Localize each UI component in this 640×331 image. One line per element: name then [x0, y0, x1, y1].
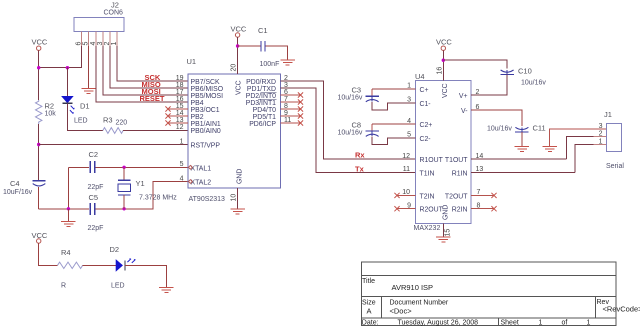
U1 TXD underline — [261, 91, 277, 93]
svg-text:XTAL2: XTAL2 — [191, 180, 212, 187]
svg-text:18: 18 — [176, 82, 184, 89]
svg-text:2: 2 — [599, 131, 603, 138]
U1 no-connect stub pin 6r — [281, 94, 301, 96]
svg-text:U4: U4 — [415, 72, 425, 81]
svg-text:PB4: PB4 — [191, 100, 204, 107]
X mark pin 7r — [298, 99, 303, 104]
wire C3 bottom to U4 C1- — [372, 102, 415, 110]
wire J1 pin3 to ground — [550, 129, 607, 147]
svg-text:C2: C2 — [89, 150, 99, 159]
U1 no-connect stub pin 9r — [281, 115, 301, 117]
svg-text:22pF: 22pF — [88, 184, 104, 191]
svg-text:VCC: VCC — [442, 83, 449, 98]
U1 no-connect stub pin 13 — [168, 122, 188, 124]
X mark pin 8r — [298, 106, 303, 111]
crystal Y1 — [118, 167, 177, 209]
svg-text:PD6/ICP: PD6/ICP — [249, 121, 276, 128]
svg-text:10u/16v: 10u/16v — [521, 80, 546, 87]
node junction RST pullup — [37, 143, 40, 146]
svg-text:AVR910 ISP: AVR910 ISP — [392, 283, 434, 292]
capacitor C1 — [258, 26, 279, 68]
U4 pin numbers right — [476, 89, 484, 210]
U1 INT0 underline — [258, 98, 277, 100]
svg-text:RESET: RESET — [140, 94, 165, 103]
svg-text:C2-: C2- — [420, 136, 431, 143]
ground under U4 — [436, 237, 451, 242]
U4 pin names left — [420, 87, 444, 214]
wire J2 pin 3 MOSI to U1 pin 17 — [103, 46, 188, 95]
capacitor C3 — [338, 86, 380, 102]
svg-text:PD0/RXD: PD0/RXD — [246, 79, 276, 86]
svg-text:Rx: Rx — [355, 151, 365, 160]
J2 pin 4 stub — [95, 32, 97, 47]
svg-text:PB7/SCK: PB7/SCK — [191, 79, 221, 86]
svg-text:20: 20 — [231, 64, 238, 72]
wire D2 cathode to ground — [125, 265, 166, 287]
wire J2 pin 4 RESET to U1 pin 16 — [96, 46, 188, 102]
svg-text:5: 5 — [83, 42, 90, 46]
svg-text:T1OUT: T1OUT — [445, 157, 468, 164]
svg-text:C5: C5 — [89, 193, 99, 202]
ground at C1 — [280, 60, 295, 65]
U4 no-connect stub pin 8 — [471, 208, 494, 210]
wire J2 pin 5 to ground — [88, 46, 90, 89]
svg-text:of: of — [562, 320, 568, 327]
U4 no-connect stub pin 10 — [397, 194, 416, 196]
svg-text:V+: V+ — [459, 93, 468, 100]
svg-text:CON6: CON6 — [104, 10, 124, 17]
svg-text:T2OUT: T2OUT — [445, 193, 468, 200]
wire RST/VPP to pullup rail — [39, 144, 188, 146]
wire R4 to D2 — [83, 264, 116, 266]
svg-text:Sheet: Sheet — [501, 320, 519, 327]
svg-text:1: 1 — [599, 138, 603, 145]
capacitor C8 — [338, 121, 380, 137]
capacitor C5 — [88, 193, 104, 232]
svg-text:100nF: 100nF — [260, 61, 280, 68]
wire C8 top to U4 C2+ — [372, 123, 415, 125]
ground under J1 pin3 — [543, 147, 558, 152]
wire VCC to U4 pin 16 — [442, 50, 444, 80]
svg-text:<RevCode>: <RevCode> — [603, 305, 640, 314]
wire C8 bottom to U4 C2- — [372, 136, 415, 144]
U1 pin numbers left — [176, 75, 184, 183]
U4 no-connect stub pin 9 — [397, 208, 416, 210]
svg-text:10u/16v: 10u/16v — [487, 126, 512, 133]
svg-text:R2: R2 — [45, 102, 55, 111]
svg-text:R4: R4 — [61, 248, 71, 257]
svg-text:11: 11 — [403, 166, 410, 173]
wire J2 pin 1 SCK to U1 pin 19 — [117, 46, 188, 81]
wire ground stub — [67, 209, 69, 222]
svg-text:12: 12 — [176, 124, 184, 131]
wire D1 anode — [66, 68, 68, 97]
svg-text:Document Number: Document Number — [390, 300, 449, 307]
svg-text:PD4/T0: PD4/T0 — [253, 107, 277, 114]
svg-text:PD3/INT1: PD3/INT1 — [246, 100, 276, 107]
node junction ground net — [67, 207, 70, 210]
svg-text:C3: C3 — [352, 86, 362, 95]
svg-text:U1: U1 — [187, 57, 197, 66]
wire C1 right leg to ground — [265, 46, 287, 60]
power VCC (bottom left) — [32, 231, 48, 243]
svg-text:22pF: 22pF — [88, 225, 104, 232]
U1 pin numbers right — [284, 75, 291, 124]
svg-text:10k: 10k — [45, 111, 57, 118]
svg-text:7.3728 MHz: 7.3728 MHz — [139, 195, 177, 202]
svg-text:C2+: C2+ — [420, 122, 433, 129]
wire RXD to MAX232 R1OUT — [281, 81, 416, 159]
U4 pin numbers left — [402, 83, 411, 210]
svg-text:XTAL1: XTAL1 — [191, 165, 212, 172]
svg-text:Serial: Serial — [606, 163, 624, 170]
resistor R3 — [103, 116, 127, 134]
power VCC (above U1) — [231, 25, 247, 38]
wire VCC to U1 pin 20 — [237, 37, 239, 74]
connector J2 — [74, 1, 124, 32]
svg-text:5: 5 — [180, 161, 184, 168]
capacitor C2 — [88, 150, 104, 191]
U1 no-connect stub pin 8r — [281, 108, 301, 110]
svg-text:220: 220 — [116, 120, 128, 127]
svg-text:PB1/AIN1: PB1/AIN1 — [191, 121, 221, 128]
LED D1 — [62, 97, 89, 125]
wire C10 to U4 V+ — [471, 75, 507, 96]
J2 pin 3 stub — [102, 32, 104, 47]
node junction C10 tap — [442, 59, 445, 62]
node junction D1 branch — [66, 66, 69, 69]
J1 pin 2 stub — [594, 136, 607, 138]
svg-text:Tx: Tx — [355, 164, 365, 173]
wire C3 top to U4 C+ — [372, 88, 415, 90]
ground under J2 — [81, 89, 96, 94]
svg-text:Title: Title — [362, 278, 375, 285]
node junction C1 tap — [236, 44, 239, 47]
U4 pin names right — [445, 93, 468, 214]
svg-text:VCC: VCC — [32, 38, 48, 47]
svg-text:J1: J1 — [604, 110, 612, 119]
U1 no-connect stub pin 7r — [281, 101, 301, 103]
svg-text:VCC: VCC — [231, 25, 247, 34]
svg-text:PB5/MOSI: PB5/MOSI — [191, 93, 224, 100]
resistor R2 — [36, 100, 57, 124]
svg-text:<Doc>: <Doc> — [390, 307, 413, 316]
U1 xtal2 pin diamond — [189, 180, 193, 184]
svg-text:3: 3 — [97, 42, 104, 46]
resistor R4 — [58, 248, 83, 290]
power VCC (top left) — [32, 38, 48, 51]
svg-text:GND: GND — [237, 169, 244, 184]
U1 pin names right — [246, 79, 277, 128]
svg-text:RST/VPP: RST/VPP — [191, 143, 221, 150]
svg-text:R1OUT: R1OUT — [420, 157, 444, 164]
capacitor C10 — [500, 67, 546, 87]
wire VCC to C10 — [443, 60, 507, 68]
X mark U4 pin 10 — [394, 193, 399, 198]
X mark U4 pin 8 — [491, 206, 496, 211]
wire U4 V- to C11 — [471, 110, 522, 126]
wire J2 pin 2 MISO to U1 pin 18 — [110, 46, 188, 88]
J2 pin 1 stub — [116, 32, 118, 47]
wire C11 to ground — [521, 132, 523, 147]
svg-text:PB2: PB2 — [191, 114, 204, 121]
U1 no-connect stub pin 15 — [168, 108, 188, 110]
LED D2 — [110, 245, 136, 290]
svg-text:C8: C8 — [352, 121, 362, 130]
svg-text:VCC: VCC — [436, 38, 452, 47]
J2 pin 5 stub — [88, 32, 90, 47]
svg-text:10uF/16v: 10uF/16v — [3, 189, 33, 196]
X mark pin 9r — [298, 113, 303, 118]
svg-text:T2IN: T2IN — [420, 193, 435, 200]
svg-text:T1IN: T1IN — [420, 170, 435, 177]
J1 pin 1 stub — [594, 143, 607, 145]
wire U4 pin 15 to ground — [442, 223, 444, 237]
J2 pin 2 stub — [109, 32, 111, 47]
wire VCC rail below R2 to C4 — [38, 124, 40, 180]
wire C1 left leg — [238, 45, 261, 47]
svg-text:PB3/OC1: PB3/OC1 — [191, 107, 220, 114]
wire XTAL1 net — [68, 166, 188, 168]
svg-text:PD5/T1: PD5/T1 — [253, 114, 277, 121]
svg-text:17: 17 — [176, 89, 184, 96]
X mark pin 14 — [165, 113, 170, 118]
svg-text:6: 6 — [76, 42, 83, 46]
svg-text:2: 2 — [104, 42, 111, 46]
svg-text:A: A — [367, 307, 372, 316]
wire VCC rail upper segment — [38, 50, 40, 100]
svg-text:16: 16 — [436, 67, 443, 75]
X mark pin 11r — [298, 120, 303, 125]
svg-text:15: 15 — [445, 229, 452, 237]
wire VCC to J2 pin 6 — [39, 46, 82, 68]
svg-text:19: 19 — [176, 75, 184, 82]
svg-text:AT90S2313: AT90S2313 — [189, 196, 226, 203]
X mark pin 6r — [298, 92, 303, 97]
svg-text:4: 4 — [90, 42, 97, 46]
svg-text:R1IN: R1IN — [452, 170, 468, 177]
svg-text:C10: C10 — [518, 67, 532, 76]
svg-text:R2IN: R2IN — [452, 207, 468, 214]
power VCC (above U4) — [436, 38, 452, 51]
svg-text:4: 4 — [180, 175, 184, 182]
ground near C5 — [61, 222, 75, 227]
wire TXD to MAX232 T1IN — [281, 88, 416, 172]
node junction crystal top — [122, 166, 125, 169]
wire U4 T1OUT to J1 pin2 — [471, 137, 607, 160]
svg-text:10: 10 — [231, 194, 238, 202]
ground under C11 — [515, 147, 530, 152]
svg-text:10u/16v: 10u/16v — [338, 130, 363, 137]
wire C4 bottom to ground rail — [38, 187, 40, 209]
ground under U1 — [230, 209, 245, 214]
U1 xtal1 pin diamond — [189, 165, 193, 169]
svg-text:3: 3 — [599, 123, 603, 130]
J2 pin 6 stub — [81, 32, 83, 47]
svg-text:Date:: Date: — [362, 320, 379, 327]
svg-text:1: 1 — [111, 42, 118, 46]
connector J1 — [604, 110, 624, 170]
X mark pin 15 — [165, 106, 170, 111]
svg-text:PB0/AIN0: PB0/AIN0 — [191, 128, 221, 135]
svg-text:C1-: C1- — [420, 101, 431, 108]
svg-text:PB6/MISO: PB6/MISO — [191, 86, 224, 93]
capacitor C11 — [487, 124, 546, 133]
svg-text:16: 16 — [176, 96, 184, 103]
svg-text:V-: V- — [461, 108, 468, 115]
svg-text:LED: LED — [111, 283, 125, 290]
wire R3 to U1 pin 12 — [123, 130, 188, 132]
svg-text:1: 1 — [587, 320, 591, 327]
wire XTAL2 bottom net — [39, 182, 188, 209]
svg-text:Tuesday, August 26, 2008: Tuesday, August 26, 2008 — [398, 320, 479, 327]
X mark U4 pin 7 — [491, 193, 496, 198]
svg-text:Y1: Y1 — [136, 179, 145, 188]
wire U1 pin 10 to ground — [237, 188, 239, 209]
X mark pin 13 — [165, 120, 170, 125]
ground under D2 — [159, 288, 174, 293]
svg-text:Size: Size — [362, 300, 376, 307]
svg-text:R: R — [61, 283, 66, 290]
U4 no-connect stub pin 7 — [471, 194, 494, 196]
svg-text:D1: D1 — [80, 102, 90, 111]
svg-text:LED: LED — [74, 118, 88, 125]
svg-text:D2: D2 — [110, 245, 120, 254]
svg-text:C4: C4 — [10, 179, 20, 188]
wire C2 ground leg — [67, 167, 69, 209]
svg-text:R3: R3 — [103, 116, 113, 125]
IC U1 AT90S2313 — [187, 57, 281, 203]
U1 no-connect stub pin 14 — [168, 115, 188, 117]
svg-text:GND: GND — [442, 205, 449, 220]
node junction VCC/J2 — [37, 66, 40, 69]
svg-text:R2OUT: R2OUT — [420, 207, 444, 214]
svg-text:J2: J2 — [111, 1, 119, 10]
svg-text:1: 1 — [539, 320, 543, 327]
capacitor C4 — [3, 179, 46, 196]
svg-text:MAX232: MAX232 — [414, 225, 441, 232]
wire VCC to R4 — [39, 243, 58, 265]
X mark U4 pin 9 — [394, 206, 399, 211]
svg-text:C+: C+ — [420, 87, 429, 94]
svg-text:C11: C11 — [533, 124, 546, 133]
wire U4 R1IN to J1 pin1 — [471, 144, 607, 172]
U1 no-connect stub pin 11r — [281, 122, 301, 124]
title block frame — [361, 262, 616, 326]
svg-text:VCC: VCC — [236, 80, 243, 95]
U1 pin names left — [191, 79, 224, 187]
wire D1 cathode down and to R3 — [67, 103, 102, 130]
IC U4 MAX232 — [414, 72, 472, 232]
svg-text:C1: C1 — [258, 26, 268, 35]
node junction crystal bottom — [122, 207, 125, 210]
svg-text:10u/16v: 10u/16v — [338, 95, 363, 102]
svg-text:12: 12 — [402, 153, 410, 160]
svg-text:1: 1 — [180, 138, 184, 145]
